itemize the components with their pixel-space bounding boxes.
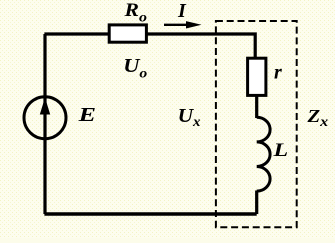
wire: bottom horizontal xyxy=(44,212,256,215)
svg-text:E: E xyxy=(77,104,95,126)
wire: r to inductor xyxy=(255,95,258,118)
voltage source E (circle) xyxy=(24,97,66,139)
current arrow I xyxy=(164,21,202,28)
wire: left branch vertical (through source) xyxy=(43,34,46,214)
wire: inductor to bottom wire xyxy=(255,191,258,215)
wire: top horizontal, source to R_o xyxy=(44,32,109,35)
arrowhead inside source E xyxy=(40,98,50,115)
wire: R_o to top-right corner and drop to r xyxy=(146,34,255,58)
resistor R_o xyxy=(109,25,146,42)
svg-text:r: r xyxy=(274,62,282,84)
svg-text:L: L xyxy=(272,139,288,160)
inductor L xyxy=(257,117,270,191)
svg-text:I: I xyxy=(177,0,187,22)
dashed box Z_x (measured impedance) xyxy=(216,21,297,227)
resistor r xyxy=(248,58,266,95)
